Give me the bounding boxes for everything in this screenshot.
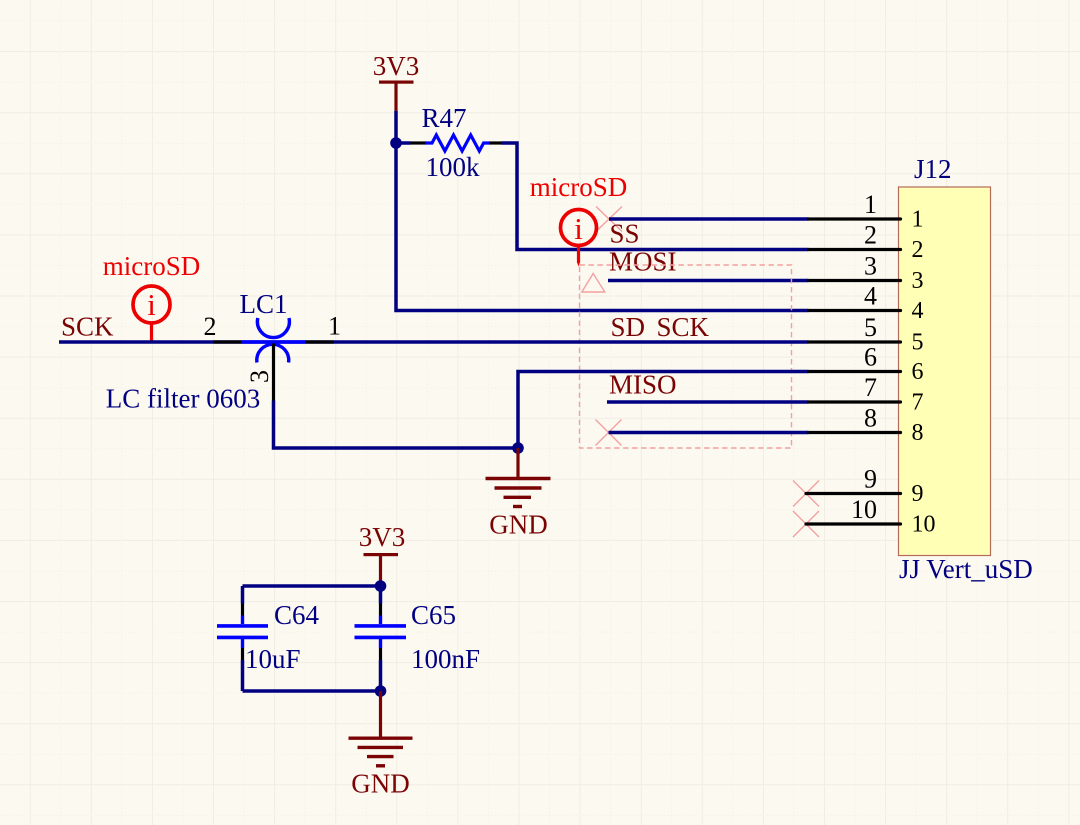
capacitor C65	[355, 616, 407, 649]
svg-text:microSD: microSD	[103, 251, 201, 281]
node junction top rail	[375, 580, 387, 592]
capacitor C64	[217, 616, 268, 649]
circle-i directive (top)	[561, 210, 597, 267]
wire R47 left lead	[396, 141, 411, 145]
svg-text:SD SCK: SD SCK	[611, 312, 710, 342]
svg-text:10: 10	[851, 495, 877, 524]
svg-text:2: 2	[204, 312, 217, 341]
wire 3V3 vertical to pin4	[396, 111, 809, 311]
pin 2 of C64	[241, 648, 244, 660]
ground GND (upper)	[486, 448, 551, 540]
svg-text:LC filter 0603: LC filter 0603	[106, 384, 260, 414]
resistor R47	[426, 135, 490, 151]
blanket dashed rectangle	[580, 265, 792, 448]
svg-text:LC1: LC1	[239, 289, 287, 319]
svg-text:C64: C64	[274, 600, 320, 630]
pin 2 of C65	[379, 648, 382, 660]
svg-text:3: 3	[912, 268, 924, 294]
wire C64 bottom lead	[241, 660, 245, 691]
wire SCK net	[59, 340, 809, 344]
pin 4 of J12	[809, 309, 901, 312]
svg-text:GND: GND	[351, 769, 410, 799]
svg-text:3V3: 3V3	[359, 522, 406, 552]
pin 1 of J12	[809, 217, 901, 220]
wire pin 1 net	[609, 217, 809, 221]
svg-text:4: 4	[912, 298, 924, 324]
wire C65 top lead	[379, 586, 383, 604]
svg-text:SS: SS	[610, 219, 640, 249]
pin 9 of J12	[806, 492, 901, 495]
compile mask triangle	[582, 274, 605, 293]
svg-text:8: 8	[912, 420, 924, 446]
inductor-filter LC1 body	[242, 318, 306, 363]
pin 3 of LC1	[272, 344, 275, 401]
wire R47 to SS net	[501, 143, 809, 250]
svg-text:J12: J12	[914, 154, 952, 184]
ground GND (lower)	[349, 691, 413, 799]
svg-text:10uF: 10uF	[245, 644, 301, 674]
no-ERC marker at pin 9	[793, 481, 819, 507]
svg-text:5: 5	[864, 313, 877, 342]
power 3V3 (top)	[373, 51, 420, 111]
wire C65 bottom lead	[379, 660, 383, 691]
svg-text:8: 8	[864, 404, 877, 433]
svg-text:3: 3	[864, 252, 877, 281]
no-ERC marker at pin 10	[793, 511, 819, 537]
pin 1 of C64	[241, 604, 244, 616]
svg-text:100nF: 100nF	[411, 644, 480, 674]
svg-text:1: 1	[912, 207, 924, 233]
svg-text:7: 7	[912, 390, 924, 416]
wire MOSI net	[608, 279, 809, 283]
pin 6 of J12	[809, 370, 901, 373]
pin 3 of J12	[809, 279, 901, 282]
wire MISO net	[607, 400, 809, 404]
pin 8 of J12	[809, 431, 901, 434]
pin 1 of C65	[379, 604, 382, 616]
svg-text:SCK: SCK	[61, 312, 114, 342]
svg-text:GND: GND	[489, 510, 548, 540]
no-ERC marker at pin 1 wire end	[596, 207, 622, 232]
pin 5 of J12	[809, 340, 901, 343]
svg-text:1: 1	[328, 312, 341, 341]
pin 2 of R47	[489, 141, 501, 144]
svg-text:3: 3	[245, 370, 274, 383]
wire up to pin 6	[518, 372, 809, 449]
svg-text:i: i	[147, 287, 156, 322]
pin 1 of R47	[411, 141, 427, 144]
svg-text:7: 7	[864, 373, 877, 402]
no-ERC marker at pin 8 wire end	[596, 420, 622, 446]
svg-text:R47: R47	[421, 103, 466, 133]
svg-text:100k: 100k	[426, 152, 481, 182]
svg-text:MISO: MISO	[609, 370, 677, 400]
wire LC1 pin3 to ground junction	[274, 401, 519, 449]
svg-text:6: 6	[864, 343, 877, 372]
svg-text:2: 2	[912, 237, 924, 263]
pin 2 of J12	[809, 248, 901, 251]
pin 10 of J12	[806, 522, 901, 525]
node junction at R47 left	[390, 137, 402, 149]
svg-text:microSD: microSD	[530, 172, 628, 202]
svg-text:10: 10	[912, 512, 936, 538]
wire decoupling top rail	[243, 584, 381, 588]
power 3V3 (bottom)	[359, 522, 406, 586]
wire pin 8 net	[609, 431, 809, 435]
wire C64 top lead	[241, 586, 245, 604]
svg-text:C65: C65	[411, 600, 456, 630]
node junction bottom rail	[375, 685, 387, 697]
svg-text:9: 9	[864, 465, 877, 494]
pin 7 of J12	[809, 400, 901, 403]
wire decoupling bottom rail	[243, 689, 381, 693]
svg-text:9: 9	[912, 481, 924, 507]
svg-text:6: 6	[912, 359, 924, 385]
svg-text:i: i	[574, 211, 583, 246]
svg-text:3V3: 3V3	[373, 51, 420, 81]
svg-text:4: 4	[864, 282, 877, 311]
svg-text:JJ Vert_uSD: JJ Vert_uSD	[899, 554, 1033, 584]
connector J12	[899, 154, 1033, 584]
pin 1 of LC1	[305, 340, 334, 343]
node junction at GND	[512, 442, 524, 454]
circle-i directive (left)	[133, 286, 170, 341]
svg-text:MOSI: MOSI	[609, 247, 677, 277]
svg-text:1: 1	[864, 190, 877, 219]
pin 2 of LC1	[214, 340, 242, 343]
svg-text:2: 2	[864, 221, 877, 250]
svg-text:5: 5	[912, 330, 924, 356]
